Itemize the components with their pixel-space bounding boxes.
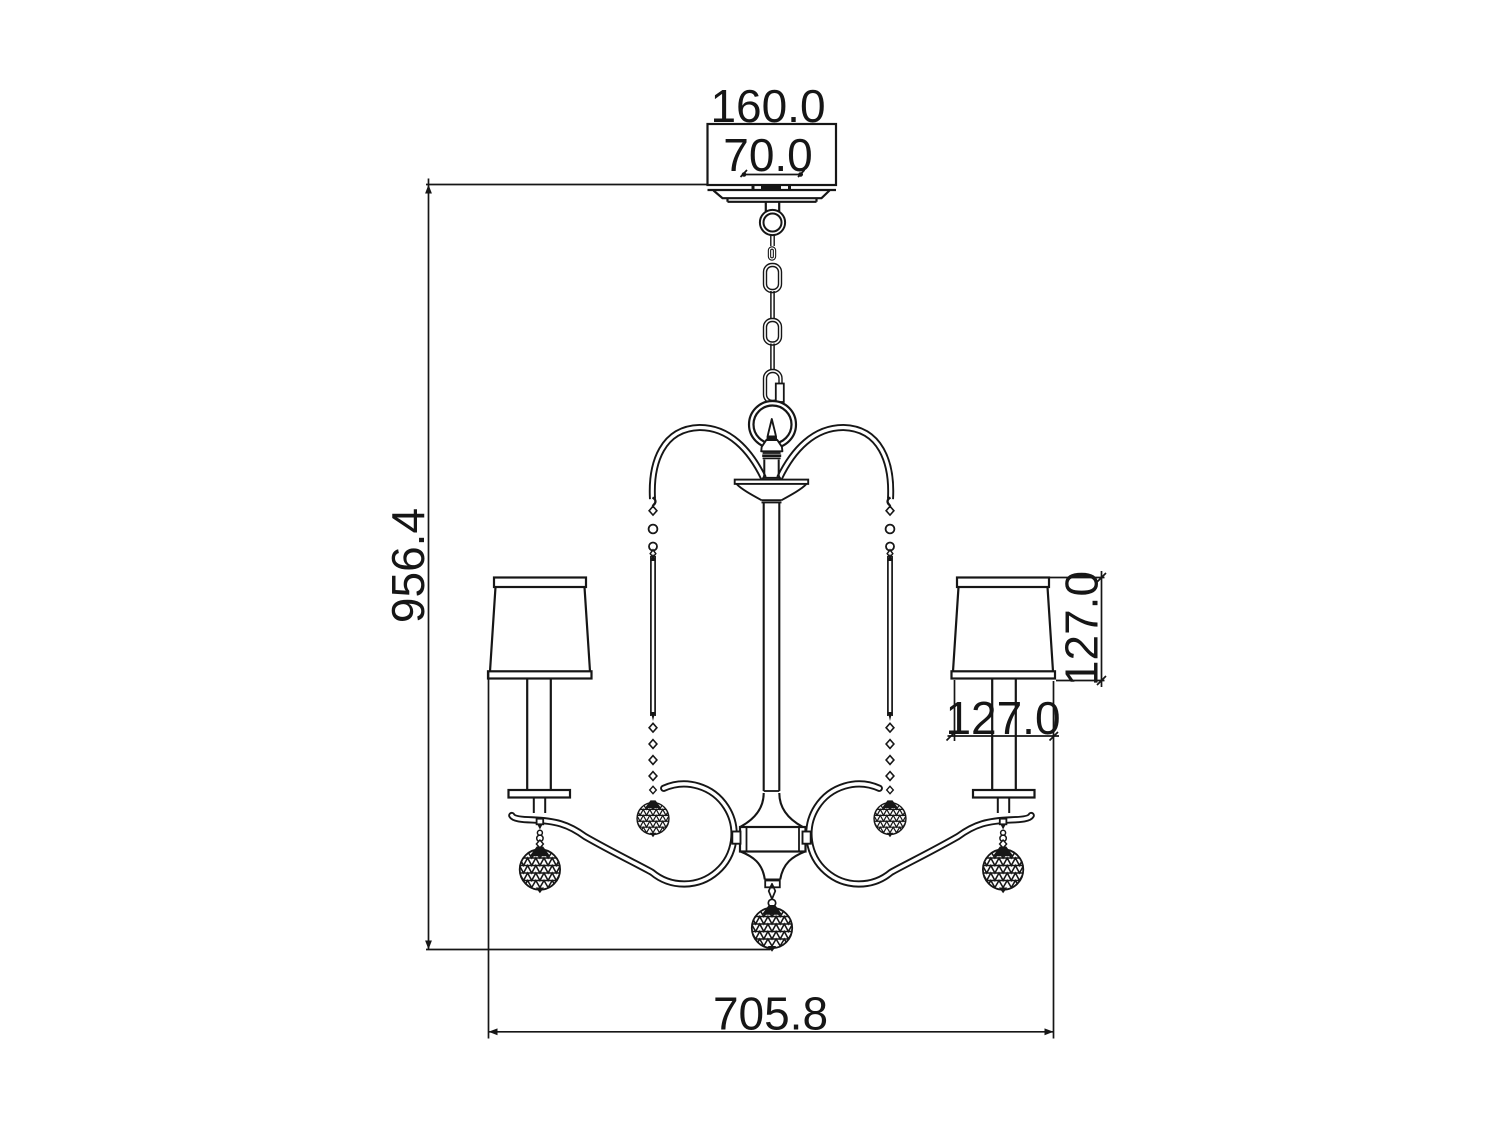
- chain link 2: [765, 320, 780, 344]
- large ring: [749, 401, 796, 448]
- shade body: [490, 587, 590, 671]
- arrow 705.8 right: [1045, 1028, 1054, 1035]
- lamp S-arm: [512, 784, 734, 884]
- canopy black mark: [752, 185, 792, 189]
- hub lower taper: [741, 852, 806, 880]
- rod diamonds: [649, 723, 657, 732]
- dim 705.8 / 127.0 right extension: [1053, 681, 1055, 1039]
- candle flame: [768, 419, 776, 437]
- hub upper taper: [741, 793, 803, 827]
- svg-text:70.0: 70.0: [723, 129, 813, 181]
- top ring: [760, 210, 785, 235]
- arrow 705.8 left: [489, 1028, 498, 1035]
- string crystal ball: [637, 800, 669, 837]
- candle tube: [527, 679, 551, 790]
- center drop bead circle: [768, 899, 775, 906]
- arm-hub bar: [732, 832, 740, 844]
- canopy box bottom plate: [708, 189, 837, 191]
- chain small link: [770, 248, 775, 259]
- center crystal ball: [752, 905, 793, 952]
- bead string: hook drop: [653, 498, 656, 507]
- square bead below arm: [537, 819, 544, 825]
- lower stem: [534, 798, 545, 814]
- small hook rings: [537, 830, 542, 835]
- dim 127.0 vertical ticks: [1097, 573, 1106, 685]
- dim 70.0 end ticks: [741, 170, 805, 177]
- chain connector 3: [771, 344, 774, 372]
- bead rod top tip: [651, 554, 656, 562]
- bead rod tip: [651, 712, 655, 721]
- dim 127.0 vertical bottom extension: [1056, 680, 1105, 682]
- canopy stem: [766, 202, 779, 212]
- svg-text:705.8: 705.8: [713, 988, 828, 1040]
- dim 70.0 end dots: [742, 172, 747, 177]
- column: [764, 502, 780, 791]
- dim 127.0 vertical top extension: [1050, 577, 1105, 579]
- bead string circle 2: [649, 543, 657, 551]
- chain link 3 (quick link): [765, 371, 781, 402]
- quick link sleeve: [776, 384, 784, 403]
- svg-text:127.0: 127.0: [1056, 571, 1108, 686]
- candle flare: [762, 475, 781, 480]
- bead string small diamond: [650, 550, 656, 558]
- dim 127.0 vertical line: [1101, 571, 1103, 687]
- right assembly (mirror of left): [803, 498, 1056, 894]
- chain connector 1: [771, 234, 774, 246]
- chain link 1: [765, 265, 780, 291]
- dim 956.4 vertical line: [428, 179, 430, 950]
- column joint line: [764, 790, 780, 792]
- lamp crystal ball: [519, 847, 560, 894]
- right arch arm: [780, 427, 891, 499]
- tiny cone: [538, 825, 543, 830]
- bead string diamond 1: [649, 506, 657, 515]
- shade top band: [494, 578, 586, 588]
- bead string circle 1: [649, 525, 658, 534]
- bobeche dish: [737, 484, 807, 503]
- bead rod: [651, 556, 655, 716]
- arrow 956.4 top: [425, 185, 432, 194]
- bobeche plate: [735, 480, 809, 484]
- dim 705.8 left extension: [488, 672, 490, 1039]
- svg-text:956.4: 956.4: [382, 508, 434, 623]
- dim 956.4 top extension line: [426, 184, 708, 186]
- canopy lower band: [728, 198, 817, 202]
- dim 127.0 horizontal left extension: [954, 680, 956, 741]
- shade bottom band: [488, 671, 592, 678]
- candle cylinder: [764, 460, 778, 475]
- dim 705.8 line: [489, 1031, 1054, 1033]
- hub box: [740, 827, 806, 852]
- ball top diamond: [536, 840, 543, 848]
- chain connector 2: [771, 291, 774, 320]
- candle black bands: [763, 452, 781, 454]
- svg-text:160.0: 160.0: [710, 80, 825, 132]
- center drop spike bead: [769, 884, 776, 899]
- dim 956.4 bottom extension line: [426, 949, 771, 951]
- dim 127.0 horizontal ticks: [947, 732, 1059, 741]
- arrow 956.4 bottom: [425, 941, 432, 950]
- left arch arm: [652, 427, 763, 499]
- svg-text:127.0: 127.0: [945, 692, 1060, 744]
- dim 127.0 horizontal line: [948, 735, 1060, 737]
- drip plate: [509, 790, 571, 798]
- candle tip dome: [761, 440, 782, 451]
- dim 70.0 line: [743, 174, 804, 176]
- hub collar: [765, 881, 780, 888]
- canopy box: [708, 124, 837, 185]
- candle wick base: [766, 436, 777, 440]
- canopy trapezoid top: [714, 191, 830, 199]
